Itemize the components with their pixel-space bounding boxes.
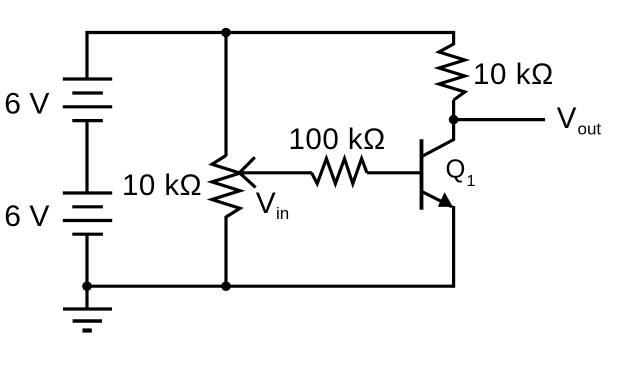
node: junction dot collector / Vout <box>449 115 459 125</box>
value label: 10 kOhm (potentiometer R1) <box>122 169 202 202</box>
wire: bottom rail <box>87 285 454 288</box>
svg-text:6 V: 6 V <box>4 200 49 233</box>
svg-text:V: V <box>256 187 276 220</box>
resistor R2 100 kOhm <box>312 159 367 184</box>
svg-text:10 kΩ: 10 kΩ <box>473 58 554 91</box>
wire: wiper to resistor R2 <box>240 171 313 174</box>
wire: Vout tap <box>454 118 545 121</box>
wire: top rail from battery + to collector resistor <box>87 33 454 81</box>
wire: between battery B1 and battery B2 <box>85 121 88 193</box>
svg-text:Q: Q <box>446 156 466 184</box>
svg-text:10 kΩ: 10 kΩ <box>122 169 202 202</box>
value label: 100 kOhm (resistor R2) <box>289 123 386 156</box>
value label: 6 V (battery B2) <box>4 200 49 233</box>
node Vout: output label <box>557 102 602 138</box>
transistor Q1 collector lead <box>422 120 454 157</box>
value label: 10 kOhm (resistor R3) <box>473 58 554 91</box>
svg-text:100 kΩ: 100 kΩ <box>289 123 386 156</box>
ground <box>63 286 112 330</box>
wire: resistor R2 to base of Q1 <box>367 171 422 174</box>
battery B1 6 V <box>63 79 112 121</box>
wire: pot bottom to bottom rail <box>224 216 227 286</box>
svg-text:V: V <box>557 102 577 135</box>
value label: 6 V (battery B1) <box>4 87 49 120</box>
svg-text:6 V: 6 V <box>4 87 49 120</box>
node: junction dot top rail / pot top <box>221 28 231 38</box>
battery B2 6 V <box>63 193 112 234</box>
wire: battery B2 to bottom rail <box>85 234 88 287</box>
wire: top rail down to potentiometer R1 <box>224 33 227 157</box>
svg-text:out: out <box>578 119 602 138</box>
potentiometer R1 10 kOhm body <box>212 156 240 218</box>
svg-text:in: in <box>276 204 289 223</box>
wire: emitter to bottom rail <box>452 206 455 288</box>
node: junction dot bottom-left (ground node) <box>82 281 92 291</box>
transistor Q1 base bar <box>420 139 424 209</box>
potentiometer R1 wiper arrow <box>240 157 256 187</box>
node: junction dot bottom pot connection <box>221 281 231 291</box>
resistor R3 10 kOhm (collector load) <box>439 44 465 100</box>
wire: collector dot up to resistor R3 <box>452 100 455 120</box>
transistor Q1 emitter lead with arrow <box>422 192 453 207</box>
node Vin: wiper output label <box>256 187 289 223</box>
svg-text:1: 1 <box>467 173 476 190</box>
designator label: Q1 <box>446 156 476 190</box>
